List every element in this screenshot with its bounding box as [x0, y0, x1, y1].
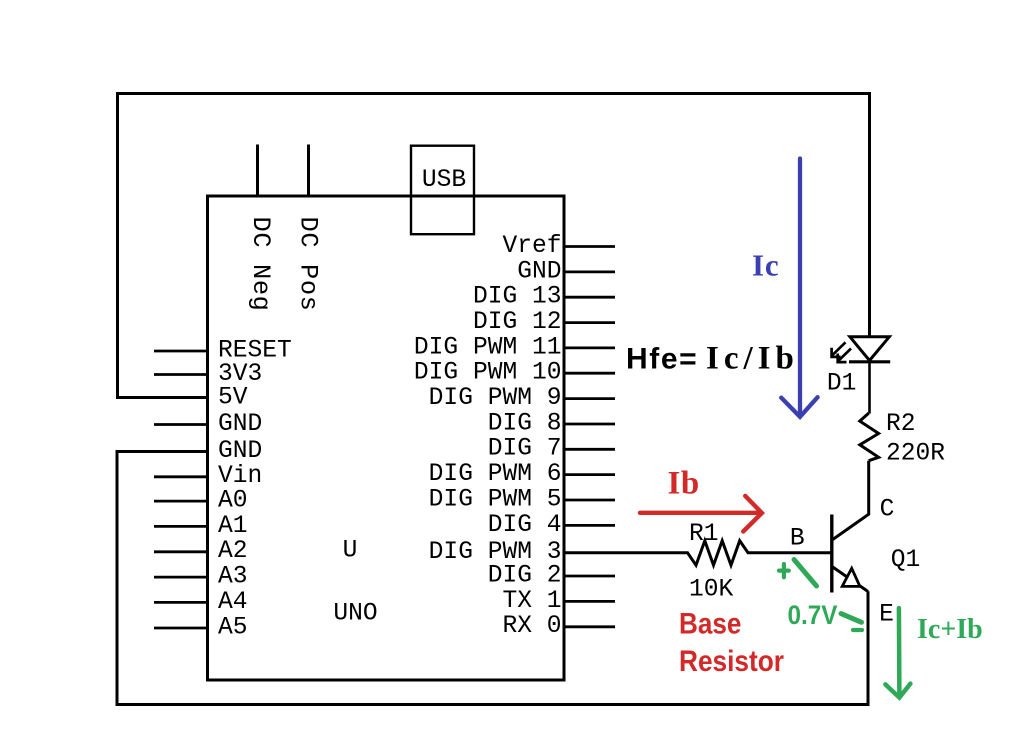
svg-text:UNO: UNO	[333, 601, 377, 628]
wire DC Neg stub	[256, 145, 259, 197]
annotation plus sign (green)	[779, 564, 789, 577]
resistor R2 zigzag	[860, 413, 879, 461]
transistor Q1 base bar	[830, 515, 833, 593]
pin DIG 2 stub	[488, 563, 615, 590]
pin A1 stub	[154, 513, 248, 540]
annotation arrow Ic+Ib (green, down)	[885, 608, 910, 698]
pin A4 stub	[154, 589, 248, 616]
annotation minus sign (green)	[853, 628, 862, 632]
svg-text:10K: 10K	[689, 577, 734, 604]
pin GND stub	[154, 411, 262, 438]
svg-text:DIG 13: DIG 13	[473, 284, 562, 311]
pin A3 stub	[154, 564, 248, 591]
svg-text:U: U	[343, 538, 358, 565]
svg-text:A5: A5	[218, 614, 248, 641]
arduino board U (body outline)	[208, 196, 565, 680]
svg-text:GND: GND	[218, 438, 262, 465]
svg-text:Hfe=: Hfe=	[626, 343, 698, 376]
svg-text:DIG PWM 11: DIG PWM 11	[414, 334, 562, 361]
svg-text:GND: GND	[218, 411, 262, 438]
pin DIG PWM 9 stub	[429, 385, 615, 412]
svg-text:DC Neg: DC Neg	[246, 217, 275, 312]
pin Vin stub	[154, 463, 262, 490]
wire base with resistor R1 zigzag	[564, 541, 832, 566]
pin DIG PWM 6 stub	[429, 461, 615, 488]
svg-text:A1: A1	[218, 513, 248, 540]
pin DIG PWM 11 stub	[414, 334, 615, 361]
annotation arrow Ic (blue, down)	[781, 159, 817, 417]
LED D1 anode wire	[868, 362, 871, 414]
LED D1 cathode bar	[849, 360, 890, 363]
pin TX 1 stub	[502, 588, 615, 615]
transistor Q1 collector lead	[832, 461, 869, 540]
svg-text:E: E	[879, 602, 894, 629]
pin DIG 13 stub	[473, 284, 615, 311]
svg-text:GND: GND	[517, 258, 561, 285]
pin DIG 7 stub	[488, 436, 615, 463]
svg-text:220R: 220R	[886, 441, 945, 468]
pin GND (connected, wire drawn in loop)	[218, 438, 262, 465]
svg-text:DIG PWM 6: DIG PWM 6	[429, 461, 562, 488]
pin A5 stub	[154, 614, 248, 641]
pin DIG 4 stub	[488, 512, 615, 539]
annotation Vbe pointer line (green)	[794, 560, 817, 587]
annotation dash to emitter (green)	[841, 614, 862, 623]
svg-text:Vin: Vin	[218, 463, 262, 490]
svg-text:A2: A2	[218, 538, 248, 565]
svg-text:R1: R1	[689, 521, 719, 548]
LED D1 emission arrow 2	[838, 349, 851, 363]
svg-text:RX 0: RX 0	[502, 613, 561, 640]
svg-text:B: B	[790, 526, 805, 553]
svg-text:TX 1: TX 1	[502, 588, 561, 615]
svg-text:Ic+Ib: Ic+Ib	[917, 614, 983, 645]
svg-text:Q1: Q1	[891, 547, 921, 574]
wire DC Pos stub	[307, 145, 310, 197]
svg-text:USB: USB	[422, 167, 466, 194]
pin DIG 8 stub	[488, 410, 615, 437]
annotation arrow Ib (red, right)	[640, 496, 762, 532]
svg-text:Vref: Vref	[502, 233, 561, 260]
pin DIG PWM 5 stub	[429, 486, 615, 513]
pin RX 0 stub	[502, 613, 615, 640]
svg-text:R2: R2	[886, 411, 916, 438]
wire GND loop (left-bottom, bottom, emitter vertical)	[117, 452, 868, 705]
wire 5V-to-LED loop (left, top, right-top)	[118, 94, 870, 398]
svg-text:DIG 4: DIG 4	[488, 512, 562, 539]
svg-text:Ic: Ic	[752, 248, 779, 283]
svg-text:DIG PWM 10: DIG PWM 10	[414, 360, 562, 387]
LED D1 triangle	[850, 337, 889, 361]
pin DIG PWM 3 label	[429, 539, 562, 566]
svg-text:A4: A4	[218, 589, 248, 616]
svg-text:DC Pos: DC Pos	[294, 217, 323, 312]
svg-text:DIG 8: DIG 8	[488, 410, 562, 437]
svg-text:A3: A3	[218, 564, 248, 591]
svg-text:0.7V: 0.7V	[788, 601, 838, 630]
pin Vref stub	[502, 233, 615, 260]
LED D1 emission arrow 1	[832, 342, 846, 357]
pin DIG 12 stub	[473, 309, 615, 336]
USB connector box	[411, 146, 474, 235]
transistor Q1 emitter lead	[832, 567, 868, 592]
svg-text:Ic/Ib: Ic/Ib	[706, 341, 799, 377]
svg-text:A0: A0	[218, 488, 248, 515]
pin RESET stub	[154, 337, 292, 364]
svg-text:D1: D1	[827, 370, 857, 397]
pin GND stub	[517, 258, 615, 285]
pin A0 stub	[154, 488, 248, 515]
svg-text:Base: Base	[679, 607, 741, 640]
svg-text:DIG 7: DIG 7	[488, 436, 562, 463]
svg-text:DIG 12: DIG 12	[473, 309, 562, 336]
svg-text:Ib: Ib	[668, 466, 700, 502]
svg-text:C: C	[880, 497, 895, 524]
transistor Q1 emitter arrow	[842, 568, 860, 586]
pin A2 stub	[154, 538, 248, 565]
pin 5V (connected, wire drawn in loop)	[218, 384, 248, 411]
pin 3V3 stub	[154, 361, 262, 388]
svg-text:DIG PWM 9: DIG PWM 9	[429, 385, 562, 412]
svg-text:DIG PWM 5: DIG PWM 5	[429, 486, 562, 513]
svg-text:DIG 2: DIG 2	[488, 563, 562, 590]
pin DIG PWM 10 stub	[414, 360, 615, 387]
svg-text:Resistor: Resistor	[679, 643, 784, 677]
svg-text:5V: 5V	[218, 384, 248, 411]
